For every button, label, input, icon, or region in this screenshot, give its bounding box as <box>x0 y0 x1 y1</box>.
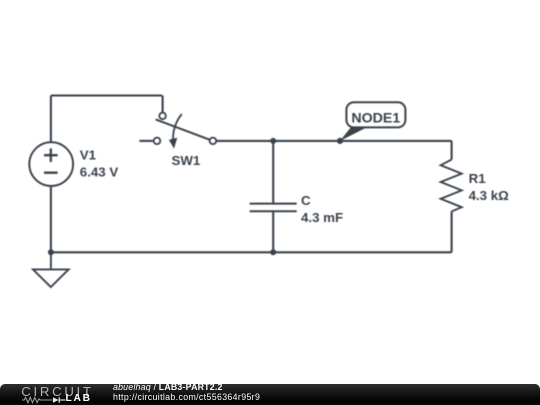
switch SW1 <box>154 113 217 145</box>
svg-text:NODE1: NODE1 <box>351 111 400 127</box>
wire right vertical resistor bottom <box>451 211 453 252</box>
svg-text:R1: R1 <box>469 171 487 186</box>
wire top-middle horizontal <box>216 140 452 142</box>
capacitor C plates <box>250 204 297 212</box>
node NODE1 balloon <box>346 102 405 127</box>
junction dot ground <box>48 249 54 255</box>
junction dot capacitor top <box>270 138 276 144</box>
junction dot capacitor bottom <box>270 249 276 255</box>
wire bottom horizontal <box>51 251 452 253</box>
svg-text:4.3 kΩ: 4.3 kΩ <box>469 188 510 203</box>
ground <box>33 252 69 287</box>
svg-text:6.43 V: 6.43 V <box>80 165 119 180</box>
node NODE1 dot <box>337 138 343 144</box>
footer credit line 1 <box>113 382 223 392</box>
footer credit line 2 <box>113 392 260 402</box>
voltage source V1 <box>29 142 73 186</box>
switch SW1 arrowhead <box>169 138 177 149</box>
footer bar <box>0 384 540 405</box>
wire capacitor top vertical <box>272 141 274 203</box>
wire right vertical resistor top <box>451 141 453 160</box>
wire V1 bottom vertical <box>50 186 52 252</box>
svg-text:V1: V1 <box>80 147 97 162</box>
svg-text:4.3 mF: 4.3 mF <box>301 210 343 225</box>
wire switch left stub <box>139 140 153 142</box>
footer logo CIRCUIT <box>21 384 93 399</box>
wire switch top vertical <box>162 96 164 113</box>
resistor R1 zigzag <box>441 160 462 212</box>
svg-text:C: C <box>301 193 311 208</box>
footer logo LAB <box>66 393 92 404</box>
node NODE1 callout pointer <box>340 127 369 141</box>
svg-text:SW1: SW1 <box>172 153 201 168</box>
wire top-left horizontal <box>51 94 162 96</box>
wire left vertical V1 top <box>50 96 52 143</box>
wire capacitor bottom vertical <box>272 212 274 252</box>
footer logo squiggle <box>22 396 68 404</box>
